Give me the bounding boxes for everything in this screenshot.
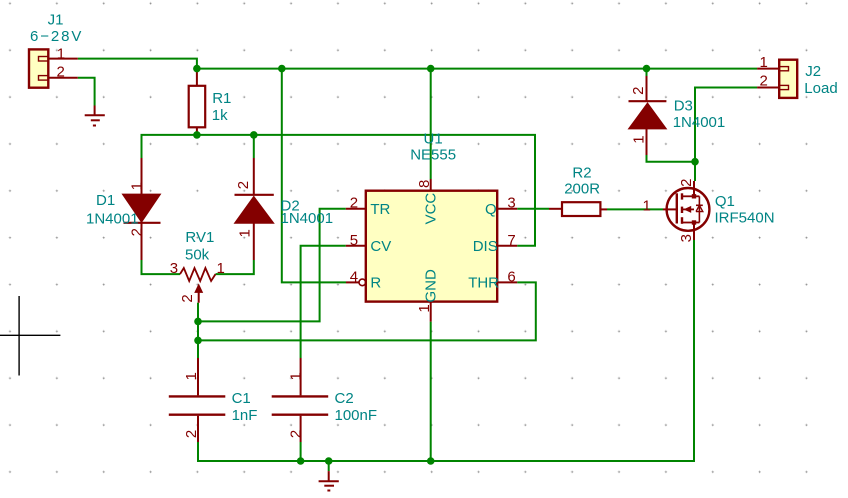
svg-text:1: 1 xyxy=(760,54,768,71)
svg-text:VCC: VCC xyxy=(422,193,439,225)
U1 pin 4 R stub with bubble xyxy=(346,281,359,283)
junction R1/rail xyxy=(193,131,201,139)
junction C2/ground rail xyxy=(297,457,305,465)
svg-text:1: 1 xyxy=(643,198,651,215)
potentiometer RV1 xyxy=(180,268,216,303)
svg-text:2: 2 xyxy=(760,73,768,90)
wire GND pin 1 down xyxy=(430,322,432,461)
svg-text:C2: C2 xyxy=(335,390,354,407)
wire bus to reset pin net xyxy=(282,69,346,283)
svg-text:IRF540N: IRF540N xyxy=(715,210,775,227)
svg-text:2: 2 xyxy=(57,64,65,81)
svg-text:2: 2 xyxy=(287,430,304,438)
svg-text:U1: U1 xyxy=(424,131,443,148)
svg-text:5: 5 xyxy=(350,232,358,249)
svg-text:RV1: RV1 xyxy=(185,229,214,246)
U1 pin 6 THR stub xyxy=(497,281,517,283)
Q1 gate lead xyxy=(663,208,677,210)
svg-text:3: 3 xyxy=(170,260,178,277)
U1 pin 1 GND stub xyxy=(430,302,432,322)
junction bus/VCC pin xyxy=(427,65,435,73)
diode D2 xyxy=(235,158,274,260)
U1 pin 8 VCC stub xyxy=(430,179,432,191)
wire J1 pin1 to bus corner xyxy=(78,59,197,69)
wire TR net xyxy=(198,209,346,322)
svg-text:2: 2 xyxy=(179,294,196,302)
wire D3 top to bus xyxy=(646,69,648,76)
wire ground rail xyxy=(198,240,694,461)
svg-text:GND: GND xyxy=(422,269,439,303)
svg-text:2: 2 xyxy=(235,181,252,189)
svg-text:R1: R1 xyxy=(212,90,231,107)
svg-text:J2: J2 xyxy=(805,63,821,80)
svg-text:8: 8 xyxy=(416,180,433,188)
capacitor C2 xyxy=(272,358,329,442)
wire wiper to junctions xyxy=(197,303,199,358)
junction bus/D3 xyxy=(643,65,651,73)
svg-text:Q: Q xyxy=(485,201,497,218)
connector J2 xyxy=(757,60,797,98)
svg-text:3: 3 xyxy=(678,234,695,242)
wire R2 to Q1 gate xyxy=(607,208,663,210)
junction D2/rail xyxy=(250,131,258,139)
Q1 gate bar xyxy=(676,193,678,223)
svg-text:Load: Load xyxy=(804,80,837,97)
svg-text:Q1: Q1 xyxy=(715,193,735,210)
svg-text:D3: D3 xyxy=(674,98,693,115)
svg-text:1N4001: 1N4001 xyxy=(673,114,726,131)
svg-text:2: 2 xyxy=(129,228,146,236)
U1 pin 7 DIS stub xyxy=(497,245,517,247)
svg-text:TR: TR xyxy=(370,201,390,218)
Q1 body diode xyxy=(698,196,700,222)
U1 pin 2 TR stub xyxy=(346,208,366,210)
svg-text:6−28V: 6−28V xyxy=(30,28,83,45)
svg-text:1k: 1k xyxy=(212,107,228,124)
diode D3 xyxy=(629,76,667,155)
origin crosshair xyxy=(0,296,60,376)
wire THR net xyxy=(198,282,536,340)
svg-text:6: 6 xyxy=(507,268,515,285)
svg-text:1: 1 xyxy=(630,135,647,143)
Q1 body arrow xyxy=(682,208,694,210)
wire drain junction to Q1 xyxy=(694,162,696,181)
ground at J1 xyxy=(85,106,105,126)
capacitor C1 xyxy=(169,358,226,442)
wire gnd stub xyxy=(328,461,330,471)
svg-text:J1: J1 xyxy=(48,12,64,29)
svg-text:4: 4 xyxy=(350,268,358,285)
svg-text:7: 7 xyxy=(507,232,515,249)
svg-text:R: R xyxy=(370,275,381,292)
svg-text:1: 1 xyxy=(183,372,200,380)
Q1 source stub xyxy=(682,222,694,224)
wire CV to C2 xyxy=(301,246,346,358)
junction D3/J2/drain xyxy=(691,158,699,166)
wire bus to VCC pin 8 xyxy=(430,69,432,179)
svg-text:3: 3 xyxy=(507,195,515,212)
wire C2 bottom xyxy=(300,442,302,461)
svg-text:2: 2 xyxy=(630,86,647,94)
svg-text:THR: THR xyxy=(468,275,499,292)
svg-text:50k: 50k xyxy=(185,247,210,264)
svg-text:1: 1 xyxy=(217,260,225,277)
svg-text:NE555: NE555 xyxy=(410,147,456,164)
svg-text:2: 2 xyxy=(183,430,200,438)
wire J1 pin2 to ground xyxy=(78,78,95,106)
wire RV1 right to D2 xyxy=(216,260,254,274)
ground at rail xyxy=(319,471,339,490)
svg-text:100nF: 100nF xyxy=(335,407,378,424)
resistor R1 xyxy=(189,69,206,135)
resistor R2 xyxy=(549,202,607,216)
U1 pin 3 Q stub xyxy=(497,208,517,210)
connector J1 xyxy=(29,49,78,87)
wire VCC bus xyxy=(197,68,757,70)
U1 pin 5 CV stub xyxy=(346,245,366,247)
svg-text:1: 1 xyxy=(57,45,65,62)
junction gnd symbol/rail xyxy=(325,457,333,465)
svg-text:2: 2 xyxy=(350,195,358,212)
junction bus/reset net xyxy=(278,65,286,73)
svg-text:1: 1 xyxy=(237,229,254,237)
wire J2 pin2 to drain junction xyxy=(695,88,757,162)
wire D2 top to rail xyxy=(253,135,255,158)
svg-text:CV: CV xyxy=(370,238,391,255)
svg-text:1: 1 xyxy=(288,372,305,380)
IC U1 NE555 xyxy=(346,179,517,322)
diode D1 xyxy=(122,158,160,260)
wire D1 to RV1 left xyxy=(142,260,181,274)
junction wiper/TR xyxy=(194,318,202,326)
svg-text:200R: 200R xyxy=(564,181,600,198)
svg-text:D1: D1 xyxy=(96,192,115,209)
Q1 drain stub xyxy=(682,195,694,197)
svg-text:1: 1 xyxy=(416,304,433,312)
junction J1/R1/bus xyxy=(193,65,201,73)
transistor Q1 IRF540N xyxy=(663,181,709,240)
Q1 channel segments xyxy=(681,193,683,199)
wire D3 bottom to drain junction xyxy=(647,155,696,162)
junction wiper/THR xyxy=(194,337,202,345)
svg-text:1N4001: 1N4001 xyxy=(281,210,334,227)
svg-text:1N4001: 1N4001 xyxy=(86,211,139,228)
wire bus to D1 rail xyxy=(142,135,536,246)
svg-text:1nF: 1nF xyxy=(232,407,258,424)
wire Q output to R2 xyxy=(517,208,549,210)
svg-text:C1: C1 xyxy=(232,390,251,407)
svg-text:R2: R2 xyxy=(572,165,591,182)
svg-text:2: 2 xyxy=(678,179,695,187)
junction U1 GND/rail xyxy=(427,457,435,465)
svg-text:DIS: DIS xyxy=(473,238,498,255)
svg-text:1: 1 xyxy=(129,182,146,190)
